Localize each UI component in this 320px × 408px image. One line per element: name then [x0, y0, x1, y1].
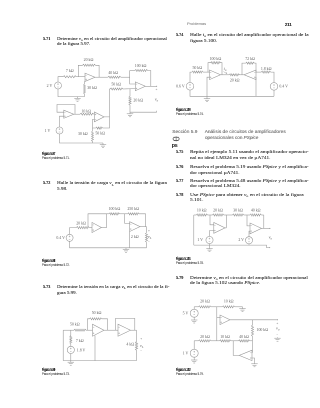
wire op-amp E2 output up	[263, 215, 265, 228]
svg-text:30 kΩ: 30 kΩ	[87, 86, 97, 90]
resistor 2 kOhm load	[146, 227, 148, 233]
svg-text:vo: vo	[269, 234, 273, 240]
wire C1 feedback left	[88, 319, 90, 330]
resistor 10 kOhm	[80, 113, 94, 115]
wire F2 noninverting to ground	[252, 358, 255, 363]
svg-text:20 kΩ: 20 kΩ	[200, 300, 210, 304]
svg-text:−: −	[276, 332, 278, 336]
caption figura 5.99	[42, 368, 55, 373]
page number 211	[285, 22, 292, 27]
wire	[209, 244, 211, 246]
voltage source 0.6 V	[186, 83, 194, 91]
wire D2 noninverting down	[255, 77, 257, 96]
svg-text:250 kΩ: 250 kΩ	[127, 207, 139, 211]
op-amp B2	[130, 222, 140, 232]
svg-text:20 kΩ: 20 kΩ	[76, 222, 86, 226]
wire op-amp E1 output up	[225, 215, 227, 228]
svg-text:+: +	[148, 229, 150, 233]
wire B2 noninverting to rail	[129, 231, 131, 248]
resistor 20 kOhm feedback	[83, 64, 96, 66]
resistor 30 kOhm to ground	[92, 131, 94, 142]
voltage source 1 V	[56, 127, 63, 134]
svg-text:50 kΩ: 50 kΩ	[70, 322, 80, 326]
wire	[203, 71, 210, 73]
wire bottom rail	[194, 245, 270, 248]
ground	[206, 96, 208, 98]
ground	[125, 248, 127, 250]
wire D2 feedback	[242, 63, 246, 75]
wire	[89, 227, 92, 229]
svg-text:100 kΩ: 100 kΩ	[135, 64, 147, 68]
caption figura 5.98	[42, 259, 55, 264]
svg-text:4 kΩ: 4 kΩ	[126, 343, 134, 347]
wire	[60, 116, 64, 127]
svg-text:40 kΩ: 40 kΩ	[108, 71, 118, 75]
wire top	[107, 213, 109, 215]
voltage source 2 V	[55, 82, 62, 89]
voltage source 0.4 V	[66, 234, 73, 241]
wire C1 noninverting to rail	[94, 336, 96, 361]
ground	[77, 97, 79, 99]
problem 5.77 text	[176, 178, 183, 183]
wire feedback right	[139, 214, 146, 227]
wire bottom rail	[190, 90, 274, 96]
resistor 100 kOhm	[252, 320, 254, 325]
resistor 250 kOhm feedback	[128, 213, 139, 215]
wire bottom rail	[70, 241, 147, 248]
wire input	[63, 329, 74, 331]
resistor 72 kOhm feedback	[246, 62, 254, 64]
section 5.9 heading	[172, 130, 197, 136]
op-amp A4	[135, 82, 145, 91]
wire left end down	[193, 215, 195, 245]
resistor 50 kOhm	[110, 88, 123, 90]
ground	[209, 245, 211, 249]
wire bottom rail	[63, 360, 136, 362]
ground	[70, 361, 72, 363]
svg-text:50 kΩ: 50 kΩ	[95, 132, 105, 136]
svg-text:1 V: 1 V	[197, 238, 203, 242]
wire node C to F2 inverting	[252, 341, 254, 353]
svg-text:50 kΩ: 50 kΩ	[92, 311, 102, 315]
wire E1 noninverting to source	[210, 231, 214, 237]
problem 5.74 text	[176, 32, 183, 37]
wire to op-amp E1 inverting	[210, 215, 214, 225]
svg-text:30 kΩ: 30 kΩ	[233, 209, 243, 213]
ground below 1V	[193, 357, 195, 359]
op-amp D2 mirrored	[244, 70, 256, 80]
svg-text:2 kΩ: 2 kΩ	[131, 235, 139, 239]
wire	[190, 72, 192, 82]
wire feedback right	[221, 63, 223, 75]
op-amp A2 follower	[64, 110, 74, 118]
resistor 20 kOhm lower	[199, 340, 212, 342]
wire	[86, 329, 93, 331]
problem 5.72 text	[43, 180, 50, 185]
resistor 20 kOhm	[213, 214, 224, 216]
svg-text:0.4 V: 0.4 V	[56, 236, 65, 240]
svg-text:20 kΩ: 20 kΩ	[133, 99, 143, 103]
wire C1 output	[104, 329, 118, 331]
page header running title	[187, 22, 206, 27]
wire lower	[194, 340, 198, 342]
wire D1 output	[221, 74, 230, 76]
svg-text:72 kΩ: 72 kΩ	[245, 57, 255, 61]
svg-text:20 kΩ: 20 kΩ	[200, 335, 210, 339]
wire	[70, 354, 72, 361]
wire E2 noninverting to source	[249, 231, 250, 237]
svg-text:vo: vo	[155, 97, 159, 103]
svg-text:1.8 V: 1.8 V	[77, 348, 86, 352]
svg-text:+: +	[155, 88, 157, 92]
svg-text:100 kΩ: 100 kΩ	[109, 207, 121, 211]
caption figura 5.101	[176, 257, 191, 262]
caption figura 5.100	[176, 108, 191, 113]
svg-text:−: −	[140, 349, 142, 353]
resistor 20 kOhm	[229, 74, 239, 76]
svg-text:ps: ps	[172, 143, 178, 149]
wire A4 output	[145, 85, 156, 87]
wire A3 output up	[109, 89, 112, 117]
resistor 1.8 kOhm	[261, 71, 270, 73]
wire inverting input right	[256, 71, 261, 73]
resistor 40 kOhm	[250, 214, 261, 216]
resistor 100 kOhm feedback	[130, 70, 135, 72]
resistor 50 kOhm feedback	[90, 318, 102, 320]
op-amp F1	[220, 315, 230, 325]
svg-text:20 kΩ: 20 kΩ	[213, 209, 223, 213]
problem 5.71 text	[43, 36, 50, 41]
svg-text:40 kΩ: 40 kΩ	[239, 335, 249, 339]
pspice margin icon	[169, 134, 185, 149]
wire	[70, 228, 77, 235]
wire bottom rail	[58, 89, 85, 97]
svg-text:7 kΩ: 7 kΩ	[76, 339, 84, 343]
resistor 50 kOhm	[192, 71, 203, 73]
wire to op-amp A4 noninverting input	[123, 88, 135, 90]
problem 5.76 text	[176, 164, 183, 169]
resistor 30 kOhm to rail	[84, 81, 86, 84]
voltage source 1.8 V	[67, 346, 74, 353]
ground	[254, 363, 256, 364]
resistor 100 kOhm feedback	[211, 62, 221, 64]
svg-text:1.8 kΩ: 1.8 kΩ	[261, 67, 272, 71]
resistor 20 kOhm	[76, 227, 89, 229]
wire C2 output	[131, 329, 137, 331]
svg-text:20 kΩ: 20 kΩ	[230, 79, 240, 83]
svg-text:30 kΩ: 30 kΩ	[78, 132, 88, 136]
wire op-amp A1 output	[95, 76, 108, 78]
svg-text:io: io	[224, 66, 227, 72]
op-amp E1	[214, 223, 225, 234]
op-amp A3	[94, 112, 104, 122]
svg-text:1 V: 1 V	[45, 129, 51, 133]
wire	[93, 119, 96, 128]
wire F1 output	[230, 319, 278, 321]
wire follower output	[74, 113, 80, 115]
caption figura 5.102	[176, 368, 191, 373]
resistor 20 kOhm to ground	[129, 89, 131, 96]
wire to op-amp E2 inverting	[247, 215, 250, 226]
svg-text:vo: vo	[276, 326, 280, 332]
svg-text:10 kΩ: 10 kΩ	[197, 209, 207, 213]
svg-text:10 kΩ: 10 kΩ	[224, 300, 234, 304]
op-amp B1	[92, 222, 101, 232]
svg-text:0.4 V: 0.4 V	[279, 85, 288, 89]
wire node to op-amp A4 inverting input	[121, 76, 130, 78]
wire A3 feedback	[103, 117, 110, 128]
svg-text:+: +	[140, 337, 142, 341]
wire feedback to inverting input	[254, 63, 256, 72]
problem 5.75 text	[176, 149, 183, 154]
svg-text:2 V: 2 V	[238, 238, 244, 242]
wire feedback right	[102, 319, 108, 330]
svg-text:50 kΩ: 50 kΩ	[111, 83, 121, 87]
wire feedback left	[78, 65, 82, 76]
svg-text:−: −	[148, 240, 150, 244]
wire	[93, 113, 96, 115]
wire	[248, 244, 250, 245]
node output terminal	[277, 319, 278, 320]
resistor 40 kOhm	[108, 76, 121, 78]
op-amp C1	[93, 324, 105, 336]
svg-text:100 kΩ: 100 kΩ	[257, 328, 269, 332]
wire to source	[271, 72, 274, 83]
wire node D to op-amp F2 output	[233, 341, 239, 356]
voltage source 1 V	[193, 341, 195, 349]
wire D1 noninverting down	[207, 77, 210, 96]
wire E2 output to terminal	[262, 227, 270, 229]
resistor 100 kOhm	[109, 213, 120, 215]
op-amp C2	[118, 324, 131, 336]
resistor 4 kOhm load	[136, 330, 138, 341]
svg-text:40 kΩ: 40 kΩ	[251, 209, 261, 213]
svg-text:7 kΩ: 7 kΩ	[66, 69, 74, 73]
wire feedback right	[148, 71, 151, 87]
wire node A vertical	[216, 307, 218, 341]
wire follower feedback	[57, 105, 75, 115]
svg-text:10 kΩ: 10 kΩ	[220, 335, 230, 339]
resistor 30 kOhm	[233, 214, 244, 216]
wire top rail	[194, 214, 197, 216]
node output terminal	[156, 86, 157, 87]
resistor 50 kOhm input	[74, 329, 86, 331]
svg-text:0.6 V: 0.6 V	[176, 85, 185, 89]
wire C2 feedback	[116, 318, 135, 330]
op-amp D1	[210, 70, 221, 80]
wire B1 output	[101, 227, 106, 229]
resistor 10 kOhm	[196, 214, 207, 216]
problem 5.79 text	[176, 275, 183, 280]
wire B1 feedback loop	[88, 214, 107, 228]
op-amp A1	[85, 73, 95, 81]
wire node to op-amp B2 inverting input	[120, 213, 128, 215]
problem 5.78 text	[176, 192, 183, 197]
svg-text:5 V: 5 V	[183, 311, 189, 315]
wire E1 output	[225, 227, 226, 229]
svg-text:1 V: 1 V	[183, 351, 189, 355]
svg-text:2 V: 2 V	[47, 84, 53, 88]
voltage source 5 V	[193, 307, 195, 309]
wire D1 feedback left	[208, 63, 211, 72]
wire to op-amp D2 output	[240, 74, 245, 76]
ground below 5V	[193, 317, 195, 319]
problem 5.73 text	[43, 284, 50, 289]
op-amp E2	[250, 223, 262, 234]
resistor 7 kOhm	[70, 330, 72, 335]
caption figura 5.97	[42, 152, 55, 157]
ground	[102, 143, 104, 145]
wire left branch	[62, 330, 64, 360]
wire	[77, 76, 86, 78]
svg-text:100 kΩ: 100 kΩ	[210, 57, 222, 61]
ground below vo	[277, 337, 279, 338]
wire B2 output	[140, 226, 147, 228]
resistor 10 kOhm lower	[220, 340, 231, 342]
resistor 40 kOhm lower	[239, 340, 250, 342]
resistor 10 kOhm top	[222, 306, 235, 308]
op-amp F2 mirrored	[239, 350, 252, 360]
ground	[129, 112, 131, 114]
svg-text:10 kΩ: 10 kΩ	[81, 109, 91, 113]
svg-text:20 kΩ: 20 kΩ	[84, 58, 94, 62]
resistor 7 kOhm	[63, 76, 77, 78]
resistor 50 kOhm feedback	[96, 127, 103, 129]
ground right end	[242, 307, 244, 309]
wire top	[194, 306, 198, 308]
wire	[273, 90, 275, 96]
voltage source 2 V	[245, 237, 252, 244]
svg-text:50 kΩ: 50 kΩ	[192, 66, 202, 70]
wire bottom to output terminal	[130, 111, 157, 112]
resistor 20 kOhm top	[199, 306, 212, 308]
voltage source 0.4 V	[270, 83, 278, 91]
svg-text:vL: vL	[148, 234, 152, 240]
wire bottom rail	[60, 134, 104, 143]
voltage source 1 V	[206, 236, 213, 243]
svg-text:vL: vL	[140, 343, 144, 349]
wire	[58, 77, 63, 82]
wire feedback right	[96, 65, 100, 77]
